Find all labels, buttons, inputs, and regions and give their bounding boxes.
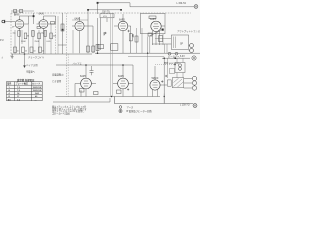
svg-text:10: 10 (17, 51, 19, 53)
svg-text:6AR5: 6AR5 (119, 19, 125, 22)
svg-text:10µ: 10µ (41, 33, 44, 35)
svg-text:10µ: 10µ (13, 33, 16, 35)
svg-text:10: 10 (34, 51, 36, 53)
svg-text:150-7Ω: 150-7Ω (102, 11, 110, 13)
svg-text:6AV6: 6AV6 (75, 18, 81, 21)
svg-text:3kΩ: 3kΩ (35, 93, 39, 95)
svg-text:150Ω 1W: 150Ω 1W (33, 87, 42, 89)
svg-text:L 150-7Ω: L 150-7Ω (180, 104, 190, 106)
svg-text:5M-K9: 5M-K9 (152, 78, 159, 80)
svg-text:真空管 各部電圧: 真空管 各部電圧 (17, 78, 35, 82)
svg-text:25: 25 (25, 51, 27, 53)
svg-text:L 150-7Ω: L 150-7Ω (177, 3, 187, 5)
svg-text:250K: 250K (35, 41, 40, 43)
svg-text:6AV6: 6AV6 (14, 13, 20, 16)
svg-text:25: 25 (42, 51, 44, 53)
svg-text:6AR5: 6AR5 (150, 18, 156, 21)
svg-text:P.U: P.U (0, 40, 4, 42)
svg-text:150Ω 1W: 150Ω 1W (33, 90, 42, 92)
svg-text:6AR5: 6AR5 (118, 75, 124, 78)
svg-text:6AV6: 6AV6 (39, 13, 45, 16)
svg-text:6AR5: 6AR5 (80, 75, 86, 78)
svg-text:500K: 500K (21, 41, 26, 43)
svg-text:SP: SP (180, 44, 184, 46)
svg-text:6.3V: 6.3V (180, 56, 185, 58)
